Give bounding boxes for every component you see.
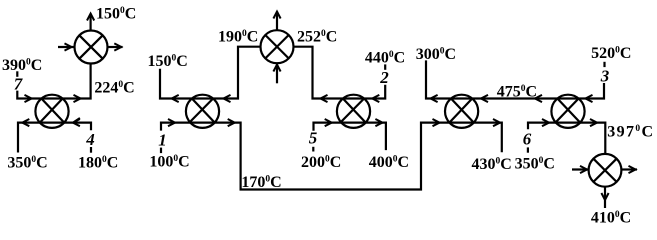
wire stream6: up from 350C, right along bottom line through HX5, down to cooler CU3: [528, 123, 605, 154]
arrow left on stream3 right of HX4: [481, 95, 488, 102]
arrow left on stream2 left of HX2: [172, 95, 179, 102]
arrow right on CU3 right stub: [629, 166, 636, 173]
svg-text:4400C: 4400C: [365, 49, 405, 66]
svg-text:3500C: 3500C: [515, 156, 555, 173]
wire stream4: up from 180C, left along bottom line through HX1, down to 350C: [18, 123, 91, 153]
svg-text:1: 1: [158, 130, 167, 149]
arrow right on stream6 before HX5: [542, 119, 549, 126]
svg-text:3: 3: [600, 67, 610, 86]
arrow left on stream4 right of HX1: [73, 118, 80, 126]
heat exchanger HX1 circle with X: [35, 95, 68, 128]
svg-text:4750C: 4750C: [497, 84, 537, 101]
arrow right on stream5 after HX3: [375, 119, 382, 126]
arrow left on stream3 right of HX5: [586, 95, 593, 102]
wire stream1: up from 100C, right through HX2, down, right along 170C line, up, right through HX4, down to 430C: [161, 123, 502, 190]
svg-text:2: 2: [379, 68, 389, 87]
svg-text:2000C: 2000C: [301, 154, 341, 171]
cooler CU2 top utility stub: [276, 12, 278, 31]
svg-text:3500C: 3500C: [7, 155, 47, 172]
svg-text:1500C: 1500C: [96, 5, 136, 22]
wire stream2: down from '2', left along top line through HX3, up, left through cooler CU2 arm: [294, 47, 386, 99]
svg-text:2520C: 2520C: [297, 29, 337, 46]
stream number labels: [14, 67, 610, 150]
wire stream6 outlet below cooler CU3 to 410C: [604, 187, 606, 208]
arrowheads: [22, 12, 635, 201]
wire stream7 vertical through cooler CU1 up to exit arrow (150C): [89, 14, 91, 31]
arrow left on stream3 left of HX4: [431, 95, 438, 102]
wire stream2 dash below 440C label: [384, 64, 386, 69]
arrow right on stream7 after HX1: [74, 95, 81, 102]
arrow left on stream4 left of HX1: [22, 119, 29, 126]
cooler CU3 left utility stub: [572, 168, 589, 170]
svg-text:3000C: 3000C: [416, 46, 456, 63]
svg-text:4000C: 4000C: [369, 154, 409, 171]
wire stream3: down from '3', left along top line through HX5 and HX4, up to 300C: [426, 60, 604, 98]
svg-text:4300C: 4300C: [472, 156, 512, 173]
arrow left on stream3 left of HX5: [535, 95, 542, 102]
arrow right on CU3 left stub: [580, 166, 587, 173]
arrow left on stream2 left of HX3: [321, 95, 328, 102]
arrow right on stream7 before HX1: [25, 95, 32, 102]
wire stream6 dash below '6': [527, 147, 529, 152]
wire stream5 dash below '5': [312, 147, 314, 152]
arrow right on stream6 after HX5: [590, 119, 597, 126]
svg-text:5: 5: [309, 129, 318, 148]
wire stream7 inlet dash below 390C label: [16, 71, 18, 77]
arrow right on CU1 left stub: [65, 43, 72, 50]
arrow up on CU2 bottom stub: [273, 65, 280, 72]
cooler CU2 circle with X: [261, 30, 294, 63]
svg-text:1900C: 1900C: [218, 29, 258, 46]
svg-text:1800C: 1800C: [78, 155, 118, 172]
arrow right on stream1 after HX2: [228, 119, 235, 126]
heat exchanger HX3 circle with X: [337, 95, 370, 128]
arrow right on CU1 right stub: [114, 43, 121, 50]
wire stream3 dash below 520C label: [603, 62, 605, 67]
cooler CU3 circle with X: [589, 154, 622, 187]
svg-text:4: 4: [85, 130, 95, 149]
arrow left on stream2 right of HX2: [224, 95, 231, 102]
wire stream5: up from 200C, right along bottom line through HX3, down to 400C: [314, 123, 386, 151]
cooler CU1 left utility stub: [58, 46, 74, 48]
wire stream4 dash below '4': [90, 147, 92, 153]
svg-text:3900C: 3900C: [2, 57, 42, 74]
svg-text:1700C: 1700C: [241, 174, 281, 191]
arrow up on stream7 exit at 150C: [87, 14, 94, 21]
heat exchanger HX5 circle with X: [551, 95, 584, 128]
cooler CU3 right utility stub: [621, 168, 637, 170]
arrow left on stream2 right of HX3: [372, 95, 379, 102]
svg-text:4100C: 4100C: [591, 210, 631, 227]
wire stream2: cooler CU2 left arm, down, left along HX2 top line, up to 150C: [160, 47, 260, 99]
cooler CU1 right utility stub: [108, 46, 123, 48]
svg-text:3970C: 3970C: [607, 124, 654, 141]
cooler CU1 circle with X: [75, 31, 108, 64]
arrow up on CU2 top stub: [273, 12, 280, 19]
svg-text:1000C: 1000C: [149, 154, 189, 171]
cooler CU2 bottom utility stub: [276, 63, 278, 83]
arrow right on stream5 before HX3: [325, 119, 332, 126]
svg-text:5200C: 5200C: [591, 45, 631, 62]
arrow down on stream6 outlet to 410C: [601, 193, 608, 200]
arrow right on stream1 after HX4: [493, 119, 500, 126]
arrow right on stream1 before HX2: [168, 119, 175, 126]
svg-text:6: 6: [523, 130, 532, 149]
arrow right on stream1 before HX4: [433, 119, 440, 126]
wire stream1 dash below '1': [160, 148, 162, 154]
svg-text:1500C: 1500C: [148, 53, 188, 70]
heat exchanger HX4 circle with X: [445, 95, 478, 128]
heat exchanger HX2 circle with X: [186, 95, 219, 128]
wire stream7: down from '7', right along top line through HX1, up to cooler CU1: [17, 64, 90, 99]
svg-text:2240C: 2240C: [94, 80, 134, 97]
